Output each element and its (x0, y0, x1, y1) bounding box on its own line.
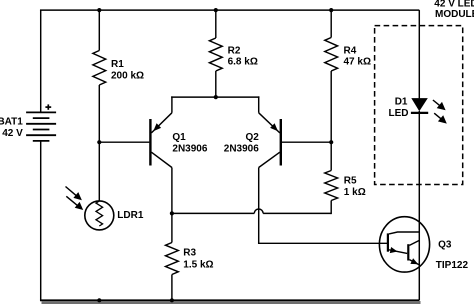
wire R5/R3 tail right segment (263, 212, 331, 214)
wire Q2 collector down (passes under hop) (258, 168, 260, 244)
svg-text:D1: D1 (395, 97, 408, 108)
wire LED cathode down through Q3 to bottom rail (418, 111, 420, 300)
battery BAT1 (26, 111, 56, 113)
wire R3 to bottom rail (171, 275, 173, 301)
LED D1 emission arrow 2 (434, 113, 443, 120)
wire bottom ground rail (40, 299, 419, 301)
svg-text:R4: R4 (344, 45, 357, 56)
svg-text:Q3: Q3 (438, 239, 452, 250)
junction bottom rail / LDR1 (97, 298, 101, 302)
bottom rail shadow (42, 301, 421, 304)
wire node A to Q1 base (99, 141, 149, 143)
wire left rail to battery + (40, 10, 42, 112)
wire battery - to bottom rail (40, 141, 42, 300)
resistor R3 (166, 243, 179, 275)
junction Q1 collector / R3 / tail (170, 211, 174, 215)
junction node A (R1/LDR1/Q1 base) (97, 140, 101, 144)
svg-text:42 V: 42 V (2, 128, 23, 139)
resistor R1 (93, 51, 106, 86)
resistor R4 (325, 38, 338, 72)
transistor Q2 (280, 119, 282, 166)
LDR1 light arrow 1 (66, 187, 78, 197)
wire Q1 collector down to node (171, 168, 173, 214)
wire R5 bottom (330, 201, 332, 215)
svg-text:200 kΩ: 200 kΩ (111, 70, 144, 81)
wire Q2 emitter riser (258, 96, 260, 112)
svg-text:6.8 kΩ: 6.8 kΩ (228, 57, 258, 68)
svg-text:R5: R5 (344, 175, 357, 186)
wire R4 to Q2 base node (330, 71, 332, 142)
wire shared emitter rail (171, 96, 259, 98)
svg-text:1.5 kΩ: 1.5 kΩ (183, 259, 213, 270)
wire Q2 base to R4/R5 node (282, 141, 331, 143)
svg-text:LED: LED (389, 108, 409, 119)
junction Q2 base / R4 / R5 (329, 140, 333, 144)
wire top rail down to LED D1 anode (418, 10, 420, 98)
svg-text:BAT1: BAT1 (0, 117, 23, 128)
resistor R2 (209, 38, 222, 71)
wire top rail to R4 (330, 10, 332, 37)
svg-text:Q2: Q2 (245, 132, 259, 143)
wire hop over Q2 collector (254, 209, 263, 213)
svg-text:LDR1: LDR1 (117, 210, 144, 221)
svg-text:Q1: Q1 (172, 132, 186, 143)
svg-text:2N3906: 2N3906 (224, 143, 259, 154)
transistor Q3 TIP122 (379, 217, 429, 272)
junction top rail / R2 (214, 8, 218, 12)
battery plus sign (45, 106, 51, 108)
svg-text:47 kΩ: 47 kΩ (344, 57, 371, 68)
svg-text:R3: R3 (183, 248, 196, 259)
junction emitter rail / R2 (214, 95, 218, 99)
wire node to R3 (171, 213, 173, 242)
svg-text:2N3906: 2N3906 (172, 143, 207, 154)
LED D1 (411, 98, 428, 111)
wire top rail to R1 (98, 10, 100, 50)
svg-text:R2: R2 (228, 45, 241, 56)
svg-text:1 kΩ: 1 kΩ (344, 187, 366, 198)
wire Q2 base node to R5 (330, 142, 332, 170)
junction bottom rail / R3 (170, 298, 174, 302)
wire Q1 emitter riser (171, 96, 173, 112)
transistor Q1 (149, 119, 151, 166)
junction top rail / R4 (329, 8, 333, 12)
wire Q2 collector to Q3 base (258, 242, 388, 244)
svg-text:TIP122: TIP122 (436, 260, 469, 271)
LED D1 emission arrow 1 (433, 100, 442, 107)
svg-text:MODULE: MODULE (435, 9, 474, 20)
resistor R5 (325, 171, 338, 201)
LDR1 light arrow 2 (66, 196, 78, 206)
wire R2 to emitter rail (215, 71, 217, 97)
wire R5/R3 tail left segment (172, 212, 254, 214)
wire top rail to R2 (215, 10, 217, 38)
junction top rail / R1 (97, 8, 101, 12)
wire top supply rail (40, 9, 419, 11)
wire R1 to node A / LDR1 (98, 85, 100, 201)
svg-text:R1: R1 (111, 59, 124, 70)
photoresistor LDR1 (85, 201, 114, 230)
dashed box 42V LED MODULE (375, 26, 463, 185)
